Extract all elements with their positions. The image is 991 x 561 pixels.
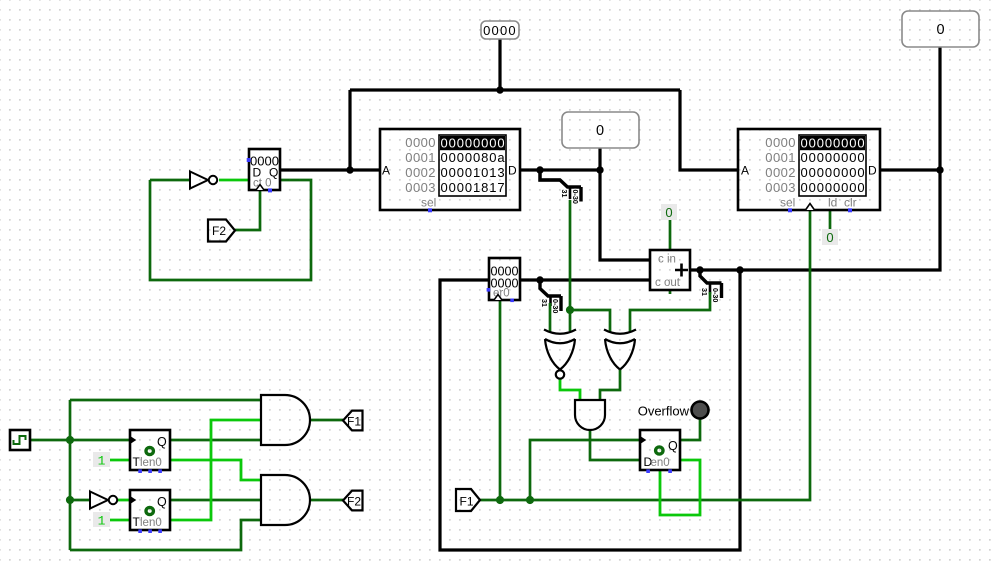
svg-text:0001: 0001 xyxy=(765,150,796,165)
svg-text:len0: len0 xyxy=(140,457,162,469)
svg-text:ld: ld xyxy=(828,196,837,210)
svg-text:0: 0 xyxy=(665,205,672,220)
svg-text:sel: sel xyxy=(780,196,795,210)
svg-text:0: 0 xyxy=(936,22,944,38)
svg-text:0003: 0003 xyxy=(765,180,796,195)
svg-text:00000000: 00000000 xyxy=(801,165,866,180)
svg-text:c out: c out xyxy=(655,277,681,289)
svg-text:Overflow: Overflow xyxy=(638,404,690,419)
svg-text:F1: F1 xyxy=(347,415,361,429)
svg-text:00001817: 00001817 xyxy=(441,180,506,195)
svg-text:0-30: 0-30 xyxy=(711,288,720,302)
svg-text:Q: Q xyxy=(157,495,167,509)
svg-text:0000: 0000 xyxy=(765,135,796,150)
svg-text:A: A xyxy=(741,164,749,178)
svg-text:F2: F2 xyxy=(347,495,361,509)
svg-text:sel: sel xyxy=(421,196,436,210)
svg-text:0000080a: 0000080a xyxy=(441,150,506,165)
svg-text:D: D xyxy=(868,164,877,178)
svg-text:00000000: 00000000 xyxy=(801,150,866,165)
svg-text:31: 31 xyxy=(560,190,569,198)
svg-text:0002: 0002 xyxy=(405,165,436,180)
svg-text:31: 31 xyxy=(700,288,709,296)
svg-text:0: 0 xyxy=(596,123,604,139)
svg-text:00001013: 00001013 xyxy=(441,165,506,180)
svg-text:0: 0 xyxy=(826,230,833,245)
svg-text:00000000: 00000000 xyxy=(801,180,866,195)
svg-text:1: 1 xyxy=(98,454,106,469)
svg-text:1: 1 xyxy=(98,514,106,529)
svg-text:A: A xyxy=(382,164,390,178)
svg-text:0001: 0001 xyxy=(405,150,436,165)
svg-text:c in: c in xyxy=(658,254,676,266)
svg-text:0-30: 0-30 xyxy=(571,190,580,204)
svg-text:0000: 0000 xyxy=(483,23,517,38)
svg-text:F1: F1 xyxy=(460,495,474,509)
svg-text:0002: 0002 xyxy=(765,165,796,180)
svg-text:F2: F2 xyxy=(212,224,226,238)
svg-text:00000000: 00000000 xyxy=(441,136,506,151)
svg-text:0000: 0000 xyxy=(405,135,436,150)
svg-text:D: D xyxy=(508,164,517,178)
svg-text:en0: en0 xyxy=(651,457,670,469)
svg-text:clr: clr xyxy=(844,196,857,210)
svg-text:0003: 0003 xyxy=(405,180,436,195)
svg-text:00000000: 00000000 xyxy=(801,136,866,151)
svg-text:len0: len0 xyxy=(140,517,162,529)
svg-text:31: 31 xyxy=(540,299,549,307)
svg-text:0-30: 0-30 xyxy=(551,299,560,313)
svg-text:Q: Q xyxy=(157,435,167,449)
svg-text:Q: Q xyxy=(668,439,678,453)
